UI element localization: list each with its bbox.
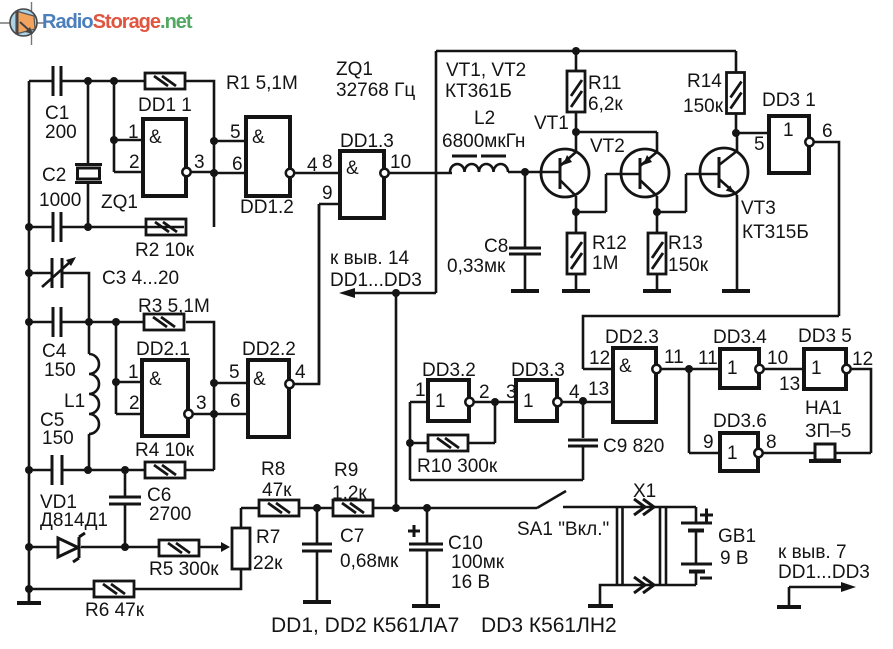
- svg-text:C4: C4: [42, 341, 67, 362]
- svg-text:8: 8: [322, 152, 333, 173]
- svg-text:DD1...DD3: DD1...DD3: [330, 270, 422, 291]
- svg-text:R5 300к: R5 300к: [149, 559, 219, 580]
- svg-text:13: 13: [588, 379, 609, 400]
- svg-text:к выв. 7: к выв. 7: [778, 542, 847, 563]
- svg-text:47к: 47к: [262, 480, 292, 501]
- svg-text:R4 10к: R4 10к: [135, 440, 195, 461]
- svg-text:&: &: [253, 369, 266, 390]
- svg-text:DD3 1: DD3 1: [762, 90, 816, 111]
- svg-text:9: 9: [322, 183, 333, 204]
- svg-text:1: 1: [783, 120, 794, 141]
- svg-text:&: &: [346, 158, 359, 179]
- svg-text:DD2.3: DD2.3: [605, 327, 659, 348]
- svg-text:X1: X1: [633, 481, 656, 502]
- svg-text:6,2к: 6,2к: [588, 94, 623, 115]
- svg-text:32768 Гц: 32768 Гц: [336, 80, 415, 101]
- svg-text:НА1: НА1: [805, 398, 842, 419]
- svg-text:DD1 1: DD1 1: [138, 95, 192, 116]
- svg-text:ZQ1: ZQ1: [336, 59, 373, 80]
- svg-text:11: 11: [664, 347, 684, 368]
- svg-text:1М: 1М: [592, 253, 618, 274]
- svg-text:C10: C10: [448, 533, 483, 554]
- svg-text:1,2к: 1,2к: [332, 483, 367, 504]
- svg-text:9 В: 9 В: [720, 548, 749, 569]
- svg-text:R13: R13: [668, 233, 703, 254]
- svg-text:1000: 1000: [39, 190, 81, 211]
- svg-text:&: &: [252, 127, 265, 148]
- svg-text:VT3: VT3: [741, 198, 776, 219]
- svg-text:200: 200: [45, 122, 77, 143]
- svg-text:5: 5: [229, 362, 240, 383]
- svg-text:150к: 150к: [668, 255, 709, 276]
- svg-text:22к: 22к: [253, 553, 283, 574]
- svg-text:DD3 К561ЛН2: DD3 К561ЛН2: [481, 614, 617, 637]
- svg-text:R2 10к: R2 10к: [135, 240, 195, 261]
- svg-text:L1: L1: [64, 391, 85, 412]
- svg-text:RadioStorage.net: RadioStorage.net: [42, 11, 193, 33]
- svg-text:VT1: VT1: [534, 113, 569, 134]
- svg-text:1: 1: [128, 362, 139, 383]
- svg-text:2: 2: [129, 393, 140, 414]
- svg-text:1: 1: [523, 391, 534, 412]
- svg-text:DD3.4: DD3.4: [713, 327, 767, 348]
- svg-text:4: 4: [307, 155, 318, 176]
- svg-text:R10 300к: R10 300к: [417, 456, 498, 477]
- svg-text:КТ361Б: КТ361Б: [445, 81, 512, 102]
- svg-text:150: 150: [42, 428, 74, 449]
- svg-text:13: 13: [779, 374, 800, 395]
- svg-text:6: 6: [822, 121, 833, 142]
- svg-text:12: 12: [852, 349, 873, 370]
- svg-text:ЗП–5: ЗП–5: [805, 421, 851, 442]
- svg-text:2: 2: [479, 382, 490, 403]
- svg-text:R11: R11: [588, 73, 621, 94]
- svg-text:1: 1: [727, 443, 738, 464]
- svg-text:C6: C6: [147, 485, 171, 506]
- svg-text:6: 6: [230, 391, 241, 412]
- svg-text:4: 4: [295, 362, 306, 383]
- svg-text:3: 3: [506, 382, 517, 403]
- svg-text:к выв. 14: к выв. 14: [330, 248, 410, 269]
- svg-text:GB1: GB1: [718, 526, 756, 547]
- svg-text:1: 1: [727, 358, 738, 379]
- svg-text:6800мкГн: 6800мкГн: [442, 131, 525, 152]
- svg-text:DD3.3: DD3.3: [511, 360, 565, 381]
- svg-text:150к: 150к: [683, 96, 724, 117]
- svg-text:2: 2: [129, 152, 140, 173]
- svg-text:R1 5,1М: R1 5,1М: [226, 73, 298, 94]
- svg-text:DD2.2: DD2.2: [242, 339, 296, 360]
- svg-text:R8: R8: [261, 459, 285, 480]
- svg-text:8: 8: [766, 432, 777, 453]
- svg-text:1: 1: [415, 380, 426, 401]
- svg-text:C2: C2: [42, 165, 66, 186]
- svg-text:DD1, DD2 К561ЛА7: DD1, DD2 К561ЛА7: [271, 614, 459, 637]
- svg-text:1: 1: [811, 358, 822, 379]
- svg-text:10: 10: [767, 348, 788, 369]
- svg-text:C8: C8: [484, 236, 508, 257]
- svg-text:5: 5: [754, 134, 765, 155]
- svg-text:4: 4: [569, 382, 580, 403]
- svg-text:0,68мк: 0,68мк: [340, 551, 399, 572]
- svg-text:R3 5,1М: R3 5,1М: [138, 296, 210, 317]
- svg-text:3: 3: [196, 393, 207, 414]
- svg-text:16 В: 16 В: [451, 572, 490, 593]
- svg-text:3: 3: [194, 152, 205, 173]
- svg-text:DD3.2: DD3.2: [422, 360, 476, 381]
- svg-text:C3 4...20: C3 4...20: [102, 268, 179, 289]
- svg-text:2700: 2700: [149, 504, 191, 525]
- svg-text:L2: L2: [474, 108, 495, 129]
- svg-text:1: 1: [435, 391, 446, 412]
- svg-text:6: 6: [232, 154, 243, 175]
- svg-text:SA1 "Вкл.": SA1 "Вкл.": [517, 519, 609, 540]
- svg-text:R14: R14: [687, 71, 722, 92]
- svg-text:КТ315Б: КТ315Б: [742, 222, 809, 243]
- svg-text:12: 12: [589, 348, 610, 369]
- svg-text:5: 5: [230, 122, 241, 143]
- svg-text:DD1...DD3: DD1...DD3: [778, 562, 870, 583]
- svg-text:DD2.1: DD2.1: [136, 339, 190, 360]
- svg-text:0,33мк: 0,33мк: [447, 256, 506, 277]
- svg-text:9: 9: [703, 432, 714, 453]
- svg-text:&: &: [619, 356, 632, 377]
- svg-text:C1: C1: [45, 103, 69, 124]
- svg-text:ZQ1: ZQ1: [101, 192, 138, 213]
- svg-text:C9 820: C9 820: [603, 436, 664, 457]
- svg-text:VT2: VT2: [590, 136, 625, 157]
- svg-text:VT1, VT2: VT1, VT2: [446, 60, 526, 81]
- svg-text:DD1.2: DD1.2: [240, 197, 294, 218]
- svg-text:1: 1: [128, 122, 139, 143]
- svg-text:DD3.6: DD3.6: [713, 411, 767, 432]
- svg-text:R6 47к: R6 47к: [85, 600, 145, 621]
- svg-text:Д814Д1: Д814Д1: [40, 510, 108, 531]
- svg-text:10: 10: [390, 152, 411, 173]
- svg-text:100мк: 100мк: [451, 552, 505, 573]
- svg-text:11: 11: [698, 348, 718, 369]
- svg-text:&: &: [149, 127, 162, 148]
- svg-text:R12: R12: [592, 233, 627, 254]
- svg-text:&: &: [149, 369, 162, 390]
- svg-text:DD1.3: DD1.3: [340, 131, 394, 152]
- svg-text:R9: R9: [334, 460, 358, 481]
- svg-text:C7: C7: [340, 526, 364, 547]
- svg-text:DD3 5: DD3 5: [798, 326, 852, 347]
- svg-text:150: 150: [44, 360, 76, 381]
- svg-text:R7: R7: [256, 527, 280, 548]
